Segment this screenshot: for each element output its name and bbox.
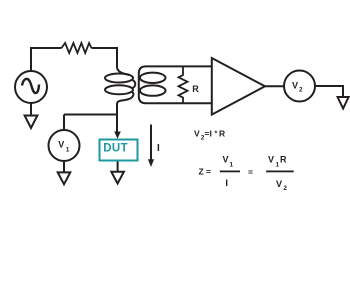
svg-text:R: R xyxy=(219,129,225,139)
svg-text:V: V xyxy=(268,155,274,165)
svg-text:V: V xyxy=(194,129,200,139)
svg-text:I: I xyxy=(225,178,228,189)
svg-text:2: 2 xyxy=(299,86,303,93)
svg-text:V: V xyxy=(292,81,298,91)
svg-text:1: 1 xyxy=(276,161,280,168)
svg-text:*: * xyxy=(215,131,218,138)
svg-text:=: = xyxy=(248,167,253,177)
svg-text:1: 1 xyxy=(230,161,234,168)
svg-text:1: 1 xyxy=(66,146,70,153)
svg-text:Z =: Z = xyxy=(199,167,212,177)
svg-text:I: I xyxy=(157,143,160,154)
svg-text:R: R xyxy=(192,84,199,94)
svg-text:V: V xyxy=(276,179,282,189)
svg-text:V: V xyxy=(223,155,229,165)
svg-text:V: V xyxy=(58,140,64,150)
svg-text:R: R xyxy=(280,155,287,165)
svg-text:=I: =I xyxy=(205,129,212,139)
svg-text:2: 2 xyxy=(283,185,287,192)
svg-text:DUT: DUT xyxy=(103,142,128,154)
